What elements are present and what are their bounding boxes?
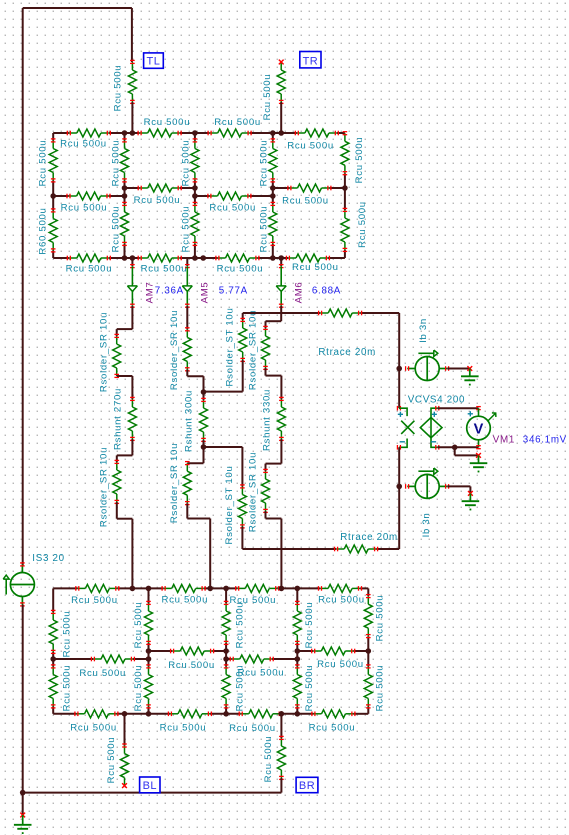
resistor Rcu 500u (row D c0-c1) xyxy=(71,584,119,606)
resistor Rcu 500u (row F c0-c1) xyxy=(70,710,118,734)
resistor Rsolder_SR 10u (chain2 upper) xyxy=(169,310,191,390)
resistor Rcu 500u (col b3 D-E) xyxy=(293,601,315,648)
label 346.1mV xyxy=(523,435,567,446)
svg-text:Rcu 500u: Rcu 500u xyxy=(318,595,365,606)
wire row B c2-c3 xyxy=(195,195,273,197)
resistor Rcu 500u (row D c2-c3) xyxy=(229,584,278,606)
wire col b2 D-E xyxy=(225,588,227,651)
wire BR resistor to rail xyxy=(280,778,282,793)
svg-text:V: V xyxy=(474,422,484,438)
wire jog to VM ground xyxy=(455,447,479,455)
resistor Rcu 500u (TR column) xyxy=(262,62,285,120)
svg-text:Rsolder_SR 10u: Rsolder_SR 10u xyxy=(169,310,180,390)
wire col c2 A-B xyxy=(194,133,196,188)
svg-text:AM5: AM5 xyxy=(200,282,211,304)
wire VCVS- to VM1- xyxy=(437,446,478,448)
wire Rtrace bottom net xyxy=(242,486,399,549)
wire Rsolder_ST lower to Rtrace bottom xyxy=(241,527,243,550)
svg-text:Rcu 500u: Rcu 500u xyxy=(60,139,107,150)
wire row C bus xyxy=(53,257,345,259)
resistor Rcu 500u (row A c2-c3) xyxy=(208,117,261,137)
svg-text:Rcu 500u: Rcu 500u xyxy=(263,736,274,783)
resistor Rsolder_SR 10u (chain4 lower) xyxy=(247,452,269,532)
resistor Rcu 500u (row E c1-c2) xyxy=(168,647,215,671)
resistor Rcu 500u (col b1 D-E) xyxy=(133,601,153,648)
svg-text:Rsolder_SR 10u: Rsolder_SR 10u xyxy=(247,310,258,390)
wire Rshunt 270u to Rsolder_SR lower xyxy=(117,439,133,462)
node TR open pin xyxy=(279,60,284,65)
wire Ib bottom to ground xyxy=(447,486,470,493)
wire col c4 B-C xyxy=(344,188,346,258)
node BL xyxy=(140,777,160,793)
svg-text:AM6: AM6 xyxy=(293,282,304,304)
resistor Rcu 500u (row A c1-c2) xyxy=(138,117,190,137)
junction chain2 shunt bottom xyxy=(201,444,207,450)
label 6.88A xyxy=(312,286,341,297)
resistor Rshunt 270u xyxy=(112,388,136,450)
svg-text:IS3 20: IS3 20 xyxy=(32,553,65,564)
node TL xyxy=(144,53,164,68)
resistor Rcu 500u (row B c2-c3) xyxy=(208,192,256,214)
label Ib 3n top xyxy=(418,318,429,343)
resistor Rcu 500u (col b0 D-E) xyxy=(49,610,72,657)
junctions row A xyxy=(122,130,284,136)
wire row E column stubs xyxy=(149,651,298,659)
VCVS VCVS4 200 xyxy=(420,406,442,450)
svg-text:VCVS4 200: VCVS4 200 xyxy=(408,395,466,406)
svg-text:Rcu 500u: Rcu 500u xyxy=(61,203,108,214)
wire col b0 D-E xyxy=(52,588,54,659)
svg-text:TR: TR xyxy=(303,55,319,67)
ground right of Ib top xyxy=(461,366,479,385)
ground bottom left xyxy=(14,813,32,834)
resistor Rcu 500u (col b4 E-F) xyxy=(364,665,385,712)
resistor Rcu 500u (row A c0-c1) xyxy=(60,129,110,150)
svg-text:Rcu 500u: Rcu 500u xyxy=(71,595,118,606)
svg-text:BR: BR xyxy=(299,780,315,792)
wire col b2 E-F xyxy=(225,659,227,714)
wire Rtrace top net xyxy=(243,313,400,369)
resistor Rcu 500u (row E c3-c4) xyxy=(312,647,364,670)
svg-text:Rcu 500u: Rcu 500u xyxy=(217,264,264,275)
wire row E c1-c2 xyxy=(149,650,227,652)
svg-text:Rcu 500u: Rcu 500u xyxy=(111,140,122,187)
resistor Rcu 500u (col b2 D-E) xyxy=(222,601,245,648)
wire VCVS+ to VM1+ xyxy=(437,407,478,409)
junctions row D xyxy=(130,586,301,592)
svg-text:Rcu 500u: Rcu 500u xyxy=(209,203,256,214)
wire row F to BL resistor xyxy=(124,714,126,746)
resistor Rcu 500u (BR column) xyxy=(263,736,286,783)
svg-text:Rcu 500u: Rcu 500u xyxy=(134,195,181,206)
resistor Rcu 500u (col c2 B-C) xyxy=(180,202,199,252)
wire row D bus xyxy=(53,587,368,589)
svg-text:R60 500u: R60 500u xyxy=(38,207,49,254)
resistor Rcu 500u (row E c0-c1) xyxy=(79,655,134,679)
wire row E c3-c4 xyxy=(297,650,368,652)
resistor Rcu 500u (col c4 B-C) xyxy=(341,201,368,251)
svg-text:Rcu 500u: Rcu 500u xyxy=(70,723,117,734)
svg-text:Rcu 500u: Rcu 500u xyxy=(180,206,191,253)
junction VM- / ground xyxy=(452,445,458,451)
wire row B column stubs xyxy=(125,188,273,196)
wire X- to bottom bus xyxy=(398,447,400,486)
svg-text:Rcu 500u: Rcu 500u xyxy=(357,201,368,248)
wire col b3 E-F xyxy=(296,659,298,714)
resistor R60 500u (col c0 B-C) xyxy=(38,207,58,254)
junctions row E xyxy=(50,648,371,662)
wire col c3 B-C xyxy=(272,196,274,258)
svg-text:Rcu 500u: Rcu 500u xyxy=(111,206,122,253)
resistor Rcu 500u (col c4 A-B) xyxy=(341,132,365,184)
svg-text:Rcu 500u: Rcu 500u xyxy=(235,602,246,649)
wire bottom rail xyxy=(23,792,282,794)
wire TR resistor to row A xyxy=(280,102,282,133)
wire Ib top to ground xyxy=(447,368,470,370)
svg-text:Rcu 500u: Rcu 500u xyxy=(161,595,208,606)
resistor Rcu 500u (col b2 E-F) xyxy=(222,665,245,712)
svg-text:Rsolder_SR 10u: Rsolder_SR 10u xyxy=(247,452,258,532)
resistor Rcu 500u (col c0 A-B) xyxy=(38,139,58,186)
wire chain1 jog to Rshunt 270u xyxy=(117,376,133,399)
wire AM6 to Rtrace top net xyxy=(280,306,282,313)
wire chain1 to bottom mesh row D xyxy=(117,502,133,588)
wire AM7 to Rsolder_SR upper xyxy=(117,306,133,336)
svg-text:Rshunt 330u: Rshunt 330u xyxy=(261,389,272,451)
wire chain4 to bottom mesh row D xyxy=(266,511,282,588)
svg-text:Rcu 500u: Rcu 500u xyxy=(62,665,73,712)
current source IS3 20 xyxy=(3,563,35,606)
junction chain2 shunt top xyxy=(201,389,207,395)
svg-text:346.1mV: 346.1mV xyxy=(523,435,567,446)
resistor Rsolder_SR 10u (chain4 upper) xyxy=(247,310,269,390)
label 7.36A xyxy=(155,286,184,297)
svg-text:Rcu 500u: Rcu 500u xyxy=(66,264,113,275)
resistor Rcu 500u (col c1 A-B) xyxy=(111,139,129,186)
svg-text:Ib 3n: Ib 3n xyxy=(418,318,429,343)
svg-text:Rcu 500u: Rcu 500u xyxy=(287,141,334,152)
svg-text:Rcu 500u: Rcu 500u xyxy=(235,665,246,712)
svg-text:Rsolder_SR 10u: Rsolder_SR 10u xyxy=(169,443,180,523)
wire X+ to top bus xyxy=(398,369,400,409)
svg-text:Rcu 500u: Rcu 500u xyxy=(180,140,191,187)
svg-text:Rcu 500u: Rcu 500u xyxy=(354,137,365,184)
svg-text:Rtrace 20m: Rtrace 20m xyxy=(318,347,376,358)
svg-text:Rcu 500u: Rcu 500u xyxy=(112,65,123,112)
resistor Rcu 500u (row F c3-c4) xyxy=(309,710,356,734)
svg-text:5.77A: 5.77A xyxy=(219,286,248,297)
wire Rshunt 330u to Rsolder_SR lower xyxy=(266,439,282,471)
wire chain2 jog to Rshunt 300u xyxy=(187,369,203,400)
svg-text:Rcu 500u: Rcu 500u xyxy=(375,665,386,712)
svg-text:6.88A: 6.88A xyxy=(312,286,341,297)
svg-text:Rsolder_ST 10u: Rsolder_ST 10u xyxy=(225,308,236,387)
junction top bus / Ib / X+ xyxy=(396,366,402,372)
resistor Rcu 500u (row F c1-c2) xyxy=(160,710,212,734)
resistor Rcu 500u (col c1 B-C) xyxy=(111,202,129,252)
wire row A bus xyxy=(53,132,345,134)
label Rtrace 20m top xyxy=(318,347,376,358)
resistor Rshunt 300u xyxy=(183,390,207,452)
wire shunt300 bottom node to Rsolder_ST lower xyxy=(204,447,243,487)
wire IS3 to bottom rail xyxy=(22,605,24,793)
svg-text:Rcu 500u: Rcu 500u xyxy=(292,262,339,273)
svg-text:Rsolder_SR 10u: Rsolder_SR 10u xyxy=(98,312,109,392)
wire row B c3-c4 xyxy=(273,187,345,189)
junction bottom bus / Ib / X- xyxy=(396,484,402,490)
svg-text:Rsolder_ST 10u: Rsolder_ST 10u xyxy=(224,466,235,545)
resistor Rcu 500u (col b4 D-E) xyxy=(364,595,385,642)
wire col b4 E-F xyxy=(367,651,369,714)
resistor Rcu 500u (col c3 B-C) xyxy=(258,202,277,252)
wire row E c0-c1 xyxy=(53,658,148,660)
wire col c1 A-B xyxy=(124,133,126,188)
resistor Rsolder_ST 10u (lower) xyxy=(224,466,246,545)
resistor Rcu 500u (col b0 E-F) xyxy=(49,665,72,712)
svg-text:Rcu 500u: Rcu 500u xyxy=(375,595,386,642)
resistor Rsolder_SR 10u (chain1 lower) xyxy=(98,447,120,527)
svg-text:Rsolder_SR 10u: Rsolder_SR 10u xyxy=(98,447,109,527)
svg-text:Rcu 500u: Rcu 500u xyxy=(282,196,329,207)
wire row B c0-c1 xyxy=(53,195,124,197)
label IS3 20 xyxy=(32,553,65,564)
wire Rtrace net to chain4 Rsolder_SR upper xyxy=(266,313,282,328)
svg-text:Rcu 500u: Rcu 500u xyxy=(160,723,207,734)
resistor Rcu 500u (row E c2-c3) xyxy=(230,655,284,679)
svg-text:Rcu 500u: Rcu 500u xyxy=(62,611,73,658)
svg-text:Rcu 500u: Rcu 500u xyxy=(309,723,356,734)
svg-text:Rcu 500u: Rcu 500u xyxy=(133,665,144,712)
wire Rtrace net to Rsolder_ST upper xyxy=(242,313,244,320)
resistor Rtrace 20m (bottom) xyxy=(335,545,378,553)
wire row F bus xyxy=(53,713,368,715)
wire col c0 A-B xyxy=(52,133,54,196)
svg-text:Rcu 500u: Rcu 500u xyxy=(229,723,276,734)
wire col b4 D-E xyxy=(367,588,369,651)
resistor Rcu 500u (row C c2-c3) xyxy=(216,254,263,275)
wire top-left frame from node TL to IS3 xyxy=(23,8,132,566)
resistor Rcu 500u (TL column) xyxy=(112,60,136,111)
ammeter AM5 xyxy=(182,258,210,307)
wire col b3 D-E xyxy=(296,588,298,651)
wire row E c2-c3 xyxy=(226,658,297,660)
resistor Rcu 500u (row D c3-c4) xyxy=(318,584,365,605)
resistor Rcu 500u (row C c3-c4) xyxy=(286,254,338,273)
wire AM5 to Rsolder_SR upper xyxy=(186,306,188,330)
svg-text:Rtrace 20m: Rtrace 20m xyxy=(340,532,398,543)
svg-text:7.36A: 7.36A xyxy=(155,286,184,297)
wire col b1 D-E xyxy=(148,588,150,651)
resistor Rcu 500u (row F c2-c3) xyxy=(229,710,282,734)
wire col b1 E-F xyxy=(148,659,150,714)
svg-text:Rcu 500u: Rcu 500u xyxy=(79,668,126,679)
resistor Rcu 500u (col c2 A-B) xyxy=(180,139,199,186)
label VM1 xyxy=(493,435,515,446)
resistor Rcu 500u (row A c3-c4) xyxy=(287,129,338,152)
svg-text:Rcu 500u: Rcu 500u xyxy=(144,117,191,128)
ground right of Ib bottom xyxy=(462,491,480,510)
junctions row B xyxy=(50,185,347,199)
wire col c4 A-B xyxy=(344,173,346,188)
resistor Rcu 500u (row B c3-c4) xyxy=(282,184,331,207)
wire chain2 to bottom mesh row D xyxy=(187,503,210,588)
resistor Rsolder_SR 10u (chain2 lower) xyxy=(169,443,191,523)
svg-text:Rcu 500u: Rcu 500u xyxy=(262,74,273,121)
svg-text:Rcu 500u: Rcu 500u xyxy=(258,206,269,253)
svg-text:Rcu 500u: Rcu 500u xyxy=(304,665,315,712)
controlled-source input port X xyxy=(397,406,414,450)
wire col c0 B-C xyxy=(52,196,54,258)
wire Rsolder_ST upper to shunt300 top node xyxy=(204,360,243,392)
wire chain4 jog to Rshunt 330u xyxy=(266,368,282,399)
svg-text:Rcu 500u: Rcu 500u xyxy=(106,737,117,784)
resistor Rtrace 20m (top) xyxy=(319,309,362,317)
svg-text:Rshunt 270u: Rshunt 270u xyxy=(112,388,123,450)
wire Rshunt 300u to Rsolder_SR lower xyxy=(187,440,203,463)
voltmeter VM1 xyxy=(467,407,496,449)
junctions row F xyxy=(122,711,300,717)
svg-text:TL: TL xyxy=(147,56,161,68)
svg-text:BL: BL xyxy=(143,780,157,792)
wire col b0 E-F xyxy=(52,659,54,714)
resistor Rshunt 330u xyxy=(261,389,285,451)
svg-text:Ib 3n: Ib 3n xyxy=(421,513,432,538)
junction bottom rail / ground xyxy=(20,790,26,796)
label 5.77A xyxy=(219,286,248,297)
node TR xyxy=(300,52,321,68)
svg-text:Rcu 500u: Rcu 500u xyxy=(317,659,364,670)
ground below VM1 xyxy=(470,453,488,472)
label Rtrace 20m bottom xyxy=(340,532,398,543)
wire col c1 B-C xyxy=(124,196,126,258)
wire col c3 A-B xyxy=(272,133,274,188)
svg-text:Rshunt 300u: Rshunt 300u xyxy=(183,390,194,452)
ammeter AM6 xyxy=(276,258,304,307)
wire row F to BR resistor xyxy=(280,714,282,738)
resistor Rsolder_SR 10u (chain1 upper) xyxy=(98,312,120,392)
resistor Rsolder_ST 10u (upper) xyxy=(225,308,247,387)
resistor Rcu 500u (col b3 E-F) xyxy=(293,665,315,712)
resistor Rcu 500u (row B c0-c1) xyxy=(61,192,110,214)
node BR xyxy=(296,777,318,792)
resistor Rcu 500u (row C c0-c1) xyxy=(66,254,113,275)
resistor Rcu 500u (row B c1-c2) xyxy=(134,184,182,206)
resistor Rcu 500u (row D c1-c2) xyxy=(161,584,208,605)
resistor Rcu 500u (BL column) xyxy=(106,737,129,786)
svg-text:VM1: VM1 xyxy=(493,435,515,446)
resistor Rcu 500u (col c3 A-B) xyxy=(258,139,277,186)
open pin BL column xyxy=(122,783,127,788)
label VCVS4 200 xyxy=(408,395,466,406)
svg-text:Rcu 500u: Rcu 500u xyxy=(133,602,144,649)
svg-text:Rcu 500u: Rcu 500u xyxy=(258,140,269,187)
svg-text:Rcu 500u: Rcu 500u xyxy=(38,140,49,187)
junctions row C xyxy=(122,255,284,261)
resistor Rcu 500u (col b1 E-F) xyxy=(133,665,153,712)
ammeter AM7 xyxy=(127,258,155,307)
wire TL resistor to row A xyxy=(131,102,133,133)
svg-text:Rcu 500u: Rcu 500u xyxy=(168,660,215,671)
label Ib 3n bottom xyxy=(421,513,432,538)
current source Ib 3n (bottom) xyxy=(406,468,449,499)
svg-text:Rcu 500u: Rcu 500u xyxy=(214,117,261,128)
svg-text:Rcu 500u: Rcu 500u xyxy=(304,602,315,649)
wire col c2 B-C xyxy=(194,196,196,258)
resistor Rcu 500u (row C c1-c2) xyxy=(138,254,187,275)
wire row B c1-c2 xyxy=(125,187,195,189)
current source Ib 3n (top) xyxy=(406,350,449,381)
wire rail to ground xyxy=(22,793,24,815)
svg-text:Rcu 500u: Rcu 500u xyxy=(141,264,188,275)
